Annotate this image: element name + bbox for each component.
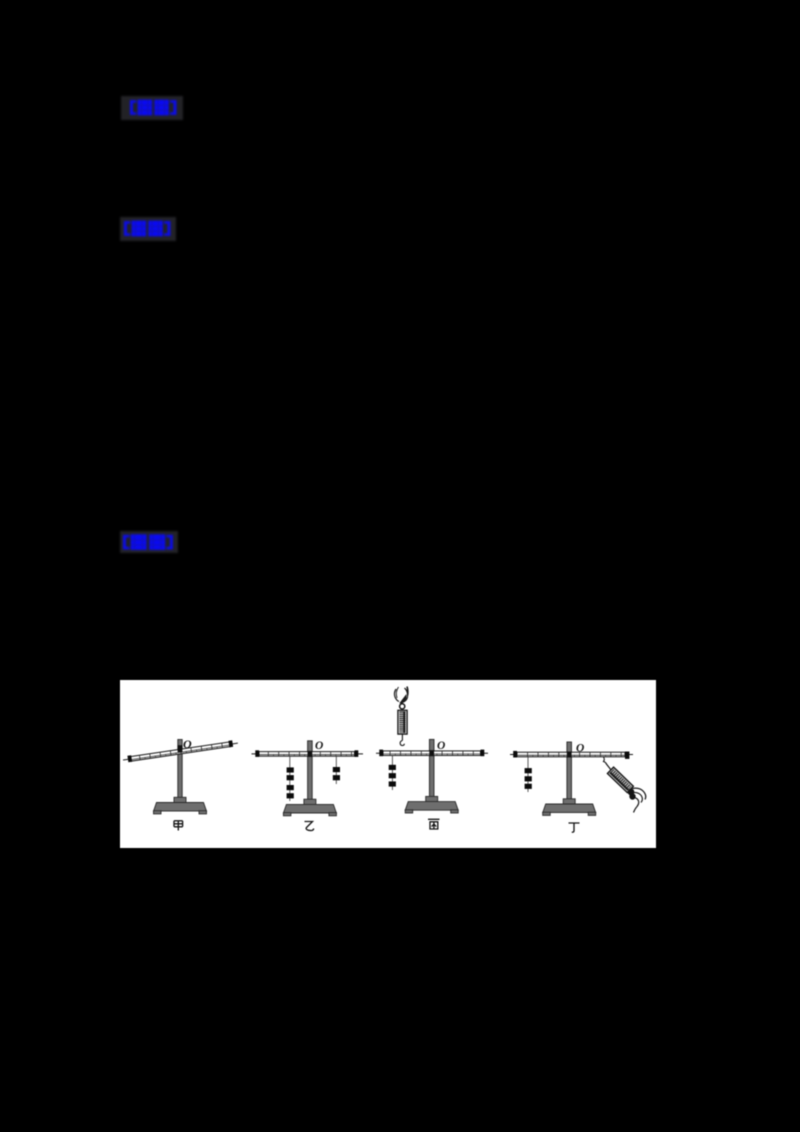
left string yi [289, 756, 291, 801]
pivot ding [567, 752, 572, 758]
hook at beam ding [604, 757, 607, 764]
stand post bing [429, 739, 434, 800]
left string ding [527, 757, 529, 792]
label bing (CJK 丙) [428, 819, 440, 829]
stand post yi [308, 741, 313, 801]
ring bing [400, 704, 405, 709]
hook bing [400, 734, 404, 746]
hand bing [394, 687, 407, 704]
svg-text:O: O [576, 743, 584, 755]
blue tag 1: 【答案】 [117, 92, 187, 124]
right weights yi (2) [333, 767, 340, 772]
stand base jia [154, 797, 207, 814]
pivot yi [308, 751, 313, 757]
lever beam yi [252, 750, 364, 757]
lever beam bing [376, 750, 488, 757]
left string bing [391, 756, 393, 791]
label jia (CJK 甲) [174, 821, 183, 831]
stand base yi [283, 799, 336, 816]
lever beam ding [510, 751, 633, 759]
stand post ding [567, 742, 572, 801]
lever beam jia (tilted) [123, 740, 239, 763]
stand post jia [178, 740, 182, 800]
left weights ding (3) [525, 768, 532, 773]
blue tag 3: 【点睛】 [116, 527, 182, 559]
figure: four lever stands [120, 680, 656, 848]
pivot jia [178, 745, 183, 752]
pivot bing [429, 750, 434, 756]
ring blob ding [628, 789, 635, 796]
svg-text:O: O [315, 740, 323, 752]
spring scale body ding (diagonal) [607, 767, 633, 792]
svg-text:O: O [437, 740, 445, 752]
spring scale body bing [398, 710, 407, 734]
stand base ding [543, 799, 596, 816]
left weights yi (4) [287, 767, 294, 772]
left weights bing (3) [389, 765, 396, 770]
svg-text:O: O [183, 737, 192, 751]
hand ding [629, 788, 645, 812]
right string yi [335, 756, 337, 784]
label yi (CJK 乙) [305, 822, 314, 831]
label ding (CJK 丁) [569, 823, 580, 832]
stand base bing [405, 796, 458, 813]
link line ding [606, 764, 612, 771]
blue tag 2: 【详解】 [116, 213, 182, 245]
